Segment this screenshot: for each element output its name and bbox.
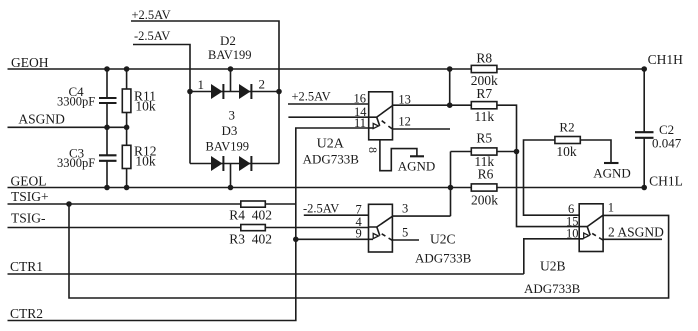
resistor R12	[126, 127, 128, 187]
wire CTR1 rail	[8, 273, 524, 275]
svg-text:13: 13	[398, 92, 411, 106]
svg-text:10k: 10k	[135, 154, 156, 169]
wire GEOH to R7 riser	[449, 69, 451, 105]
U2A pin8 wire and AGND	[380, 140, 417, 171]
wire ASGND rail	[8, 126, 127, 128]
svg-text:BAV199: BAV199	[206, 140, 250, 154]
ground AGND (R2)	[604, 162, 619, 164]
svg-text:R3 402: R3 402	[229, 232, 272, 247]
svg-text:ADG733B: ADG733B	[524, 281, 581, 296]
switch symbol U2B	[579, 215, 603, 226]
wire U2A pin16	[288, 103, 369, 105]
resistor R8	[471, 65, 497, 72]
wire U2A pin12 stub	[393, 128, 451, 130]
junction dot GEOL-R12	[124, 185, 130, 191]
svg-text:GEOL: GEOL	[11, 174, 47, 189]
junction dot ASGND-C4	[104, 125, 110, 131]
IC U2A box	[369, 92, 393, 140]
svg-text:U2A: U2A	[317, 137, 345, 152]
wire CH1H segment	[497, 68, 644, 70]
svg-text:R4 402: R4 402	[229, 208, 272, 223]
resistor R3	[241, 225, 265, 231]
svg-text:U2B: U2B	[540, 259, 566, 274]
svg-text:AGND: AGND	[593, 166, 631, 181]
junction dot GEOL-C3	[104, 185, 110, 191]
junction dot GEOH-D2 tap	[228, 66, 234, 72]
wire GEOL rail	[8, 187, 472, 189]
svg-text:2: 2	[259, 77, 266, 92]
svg-text:D3: D3	[222, 123, 238, 138]
terminal CH1H	[641, 66, 647, 72]
svg-text:TSIG-: TSIG-	[11, 211, 46, 226]
svg-text:ADG733B: ADG733B	[415, 251, 472, 266]
junction dot D2 left	[187, 89, 193, 95]
svg-text:AGND: AGND	[398, 159, 436, 174]
svg-text:11: 11	[354, 116, 366, 130]
svg-text:D2: D2	[220, 33, 236, 48]
resistor R2	[555, 137, 580, 144]
svg-text:R2: R2	[559, 120, 574, 135]
switch symbol U2A	[369, 106, 393, 118]
junction dot GEOL-R5/U2C pin3	[448, 185, 454, 191]
wire CTR2 rail and riser to U2A pin11	[8, 128, 369, 321]
svg-text:8: 8	[366, 147, 380, 153]
wire TSIG+ rail	[8, 203, 296, 205]
svg-text:GEOH: GEOH	[11, 55, 49, 70]
junction dot GEOH-R11	[124, 66, 130, 72]
junction dot TSIG+ branch	[66, 201, 72, 207]
svg-text:3: 3	[402, 202, 408, 216]
svg-text:3300pF: 3300pF	[57, 95, 95, 109]
svg-text:9: 9	[356, 227, 362, 241]
svg-text:200k: 200k	[471, 193, 498, 208]
svg-text:11k: 11k	[474, 109, 494, 124]
wire U2C pin5 stub	[392, 239, 419, 241]
wire U2C pin9	[296, 238, 373, 240]
svg-text:10k: 10k	[135, 99, 156, 114]
junction dot GEOH-C4	[104, 66, 110, 72]
svg-text:12: 12	[398, 115, 411, 129]
wire R7 to U2B pin15	[497, 105, 579, 226]
wire GEOH rail	[8, 68, 472, 70]
wire +2.5AV rail	[131, 21, 279, 164]
wire U2B pin2 stub (ASGND)	[603, 238, 662, 240]
wire TSIG- rail to U2C pin4	[8, 227, 369, 229]
junction dot GEOL-D3 tap	[228, 185, 234, 191]
capacitor C4	[106, 69, 108, 127]
wire U2C pin7	[304, 214, 369, 216]
svg-text:16: 16	[354, 92, 367, 106]
junction dot ASGND-R11	[124, 125, 130, 131]
capacitor C3	[106, 127, 108, 187]
wire U2B pin1 to TSIG+ loop	[69, 204, 669, 298]
svg-text:5: 5	[402, 226, 408, 240]
resistor R5	[451, 152, 472, 217]
resistor R11	[126, 69, 128, 127]
wire U2A pin13	[393, 104, 450, 106]
wire D3 center tap	[230, 164, 232, 188]
wire R5 to junction	[497, 151, 517, 153]
svg-text:R8: R8	[476, 51, 492, 66]
svg-text:R6: R6	[478, 166, 494, 181]
junction dot CTR2-pin9	[293, 237, 299, 243]
wire -2.5AV rail	[133, 45, 190, 164]
IC U2B box	[579, 204, 603, 252]
svg-text:3: 3	[229, 108, 236, 123]
resistor R4	[241, 201, 265, 207]
wire D2 center tap	[230, 69, 232, 92]
wire R2 left to U2B pin6	[524, 140, 580, 215]
svg-text:0.047: 0.047	[652, 136, 682, 151]
wire U2C pin3 to GEOL	[392, 215, 450, 217]
junction dot D2 right	[276, 89, 282, 95]
resistor R7	[450, 104, 472, 106]
wire CH1L segment	[497, 187, 644, 189]
svg-text:CH1L: CH1L	[649, 174, 683, 189]
svg-text:3300pF: 3300pF	[57, 156, 95, 170]
wire R2 right to ground	[580, 140, 611, 163]
svg-text:ADG733B: ADG733B	[303, 152, 360, 167]
wire U2B pin10 to CTR1	[524, 239, 584, 274]
svg-text:-2.5AV: -2.5AV	[303, 202, 339, 216]
svg-text:1: 1	[608, 201, 614, 215]
svg-text:BAV199: BAV199	[208, 48, 252, 62]
svg-text:R7: R7	[476, 86, 492, 101]
svg-text:2 ASGND: 2 ASGND	[608, 225, 664, 240]
svg-text:+2.5AV: +2.5AV	[132, 8, 171, 22]
capacitor C2	[643, 69, 645, 188]
wire U2A pin14	[288, 116, 368, 118]
svg-text:10k: 10k	[556, 144, 577, 159]
svg-text:-2.5AV: -2.5AV	[134, 29, 170, 43]
svg-text:U2C: U2C	[430, 232, 456, 247]
svg-text:1: 1	[198, 77, 205, 92]
switch symbol U2C	[369, 216, 393, 227]
terminal CH1L	[641, 185, 647, 191]
svg-text:R5: R5	[476, 131, 492, 146]
junction dot R5 right	[514, 149, 520, 155]
IC U2C box	[369, 204, 393, 252]
svg-text:TSIG+: TSIG+	[11, 189, 49, 204]
svg-text:ASGND: ASGND	[18, 112, 65, 127]
svg-text:CTR2: CTR2	[10, 306, 43, 321]
svg-text:CTR1: CTR1	[10, 259, 43, 274]
svg-text:+2.5AV: +2.5AV	[292, 90, 331, 104]
resistor R6	[471, 184, 497, 191]
svg-text:CH1H: CH1H	[648, 52, 684, 67]
junction dot R7-pin13	[447, 102, 453, 108]
junction dot GEOH-R7 branch	[447, 66, 453, 72]
